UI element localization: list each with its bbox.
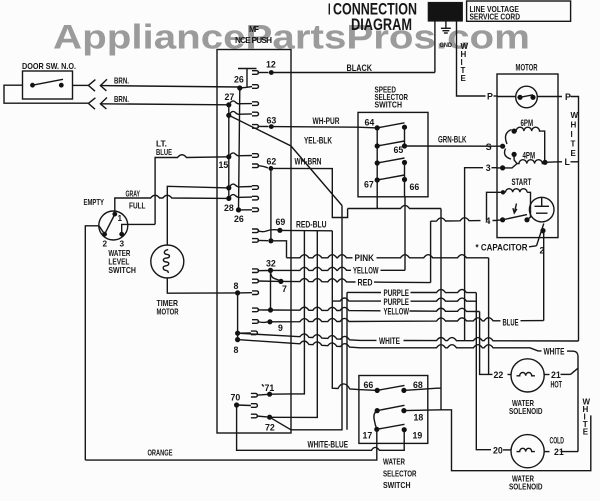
svg-text:BLUE: BLUE xyxy=(503,317,519,327)
wire PINK feed from timer xyxy=(271,241,287,258)
svg-text:RED: RED xyxy=(358,277,373,287)
wire from pin 2 down (orange riser) xyxy=(85,226,104,460)
svg-text:RED-BLU: RED-BLU xyxy=(296,220,327,230)
svg-text:DOOR SW. N.O.: DOOR SW. N.O. xyxy=(22,62,76,71)
pin 17 xyxy=(374,427,379,432)
svg-text:28: 28 xyxy=(224,203,234,213)
svg-text:H: H xyxy=(571,121,577,130)
wire BLACK from connector down to timer pin 12 xyxy=(434,21,436,73)
svg-text:E: E xyxy=(571,149,577,158)
pin 15 xyxy=(226,154,231,159)
wire purple riser down to cold solenoid 20 xyxy=(476,293,491,450)
wire 18 jog: water selector 68 to 18 run xyxy=(404,388,441,390)
svg-text:P: P xyxy=(487,91,493,101)
cold water solenoid body xyxy=(511,435,544,468)
svg-text:26: 26 xyxy=(234,74,244,84)
wire BRN. lower to timer pin 27 xyxy=(100,104,228,105)
svg-text:62: 62 xyxy=(267,157,277,167)
start switch lever xyxy=(503,215,527,220)
pin 62 xyxy=(269,166,274,171)
cam 27 xyxy=(229,101,252,105)
pin 70 xyxy=(234,402,239,407)
svg-text:YELLOW: YELLOW xyxy=(384,307,410,317)
timer motor coil xyxy=(163,250,169,273)
wire WHITE-BLUE from pin 70 to water selector 19 xyxy=(237,405,405,450)
svg-text:19: 19 xyxy=(413,431,423,441)
wire link 64b to 65 xyxy=(404,127,406,146)
svg-text:PINK: PINK xyxy=(355,253,375,263)
svg-text:NCE PUSH: NCE PUSH xyxy=(235,36,272,45)
capacitor body xyxy=(529,197,554,222)
lever 17-19 xyxy=(377,424,405,429)
wire BLUE row xyxy=(270,318,501,322)
svg-text:SWITCH: SWITCH xyxy=(383,481,411,490)
link lower contact to 4PM xyxy=(514,154,517,163)
wire YELLOW row 2 xyxy=(271,307,381,311)
pin 27 xyxy=(226,102,231,107)
wire YEL-BLK diagonal xyxy=(229,115,342,205)
cam 15 xyxy=(229,153,252,157)
svg-text:2: 2 xyxy=(540,245,545,255)
pin 71 xyxy=(267,392,272,397)
pin 66 (speed) xyxy=(402,177,407,182)
wire hot 21 xyxy=(544,374,549,376)
push-to-start bar xyxy=(238,68,257,70)
svg-text:12: 12 xyxy=(266,60,276,70)
contact dot lower xyxy=(511,152,516,157)
start switch second contact xyxy=(524,217,529,222)
pin 28 xyxy=(226,196,231,201)
svg-text:72: 72 xyxy=(265,422,275,432)
pin 32 xyxy=(268,268,273,273)
svg-text:DIAGRAM: DIAGRAM xyxy=(351,16,412,34)
contact row3 right xyxy=(402,160,407,165)
svg-text:W: W xyxy=(571,111,579,120)
svg-text:I: I xyxy=(571,130,573,139)
ground symbol xyxy=(441,27,451,29)
svg-text:MOTOR: MOTOR xyxy=(516,62,538,72)
svg-text:E: E xyxy=(461,74,467,83)
pin 26 (push) xyxy=(237,85,242,90)
svg-text:EMPTY: EMPTY xyxy=(84,198,105,207)
contact dot below 27 xyxy=(226,113,231,118)
svg-text:WH-BRN: WH-BRN xyxy=(295,157,322,167)
junction dot 240 xyxy=(268,238,273,243)
svg-text:BRN.: BRN. xyxy=(114,95,129,104)
wire to motor terminal 4 xyxy=(431,218,481,222)
svg-text:L: L xyxy=(565,157,571,167)
svg-text:YEL-BLK: YEL-BLK xyxy=(304,135,332,145)
wire switch to capacitor xyxy=(527,210,531,220)
wire protector right to P right xyxy=(537,96,562,98)
contact stub 310 xyxy=(252,308,259,312)
svg-text:S: S xyxy=(486,142,492,152)
svg-text:68: 68 xyxy=(413,380,423,390)
wire 22 into hot solenoid xyxy=(508,373,512,375)
mid contact xyxy=(375,408,380,413)
contact stub 63 xyxy=(252,125,259,129)
wire S into box xyxy=(497,145,503,147)
door switch box xyxy=(23,71,73,99)
wire 67 down to staircase xyxy=(376,180,378,209)
ground lead xyxy=(445,21,447,28)
wire RED-BLU descent to water selector 66 xyxy=(332,231,377,391)
start winding left junction xyxy=(501,190,505,194)
wire YELLOW riser up to speed selector 66 xyxy=(404,197,406,270)
svg-text:18: 18 xyxy=(414,412,424,422)
wire PURPLE1 descent xyxy=(346,292,348,429)
svg-text:WHITE: WHITE xyxy=(379,336,400,346)
pin 9 xyxy=(267,319,272,324)
protector contact right xyxy=(530,95,535,100)
contact stub 69 xyxy=(252,229,259,233)
lever 64 xyxy=(377,123,404,128)
wire BLACK horizontal from timer pin 12 xyxy=(291,72,435,74)
hot water solenoid body xyxy=(511,359,544,392)
svg-text:64: 64 xyxy=(365,117,375,127)
wire WH-BRN staircase to 18-wire xyxy=(271,168,348,217)
wire 8 column xyxy=(237,293,239,340)
svg-text:HOT: HOT xyxy=(551,379,563,389)
svg-text:17: 17 xyxy=(363,431,373,441)
svg-text:YELLOW: YELLOW xyxy=(353,266,379,276)
pin 18 xyxy=(401,408,406,413)
thermal protector body xyxy=(516,86,538,108)
wire from door switch right to disconnect xyxy=(73,84,89,86)
svg-text:SOLENOID: SOLENOID xyxy=(509,483,543,492)
pin 2 xyxy=(102,232,107,237)
wire 32 column xyxy=(270,270,272,310)
svg-text:71: 71 xyxy=(265,383,275,393)
pin 8b xyxy=(235,337,240,342)
contact dot (timer motor feed) xyxy=(226,185,231,190)
wire WHITE to hot solenoid xyxy=(238,340,542,351)
pin 3 xyxy=(119,232,124,237)
pin 19 xyxy=(402,427,407,432)
svg-text:WHITE-BLUE: WHITE-BLUE xyxy=(308,439,349,449)
pin 63 xyxy=(269,124,274,129)
timer block body xyxy=(217,50,291,434)
cam 32 to 7 xyxy=(271,272,281,281)
svg-text:63: 63 xyxy=(267,115,277,125)
wire cold 21 xyxy=(544,451,549,453)
contact dot S xyxy=(500,144,505,149)
pin 67 xyxy=(375,177,380,182)
capacitor bottom terminal xyxy=(540,228,545,233)
wire 27 column xyxy=(228,105,230,199)
lever row2 xyxy=(377,141,404,146)
door switch lever xyxy=(33,79,64,85)
start winding xyxy=(506,189,528,193)
svg-text:PURPLE: PURPLE xyxy=(384,297,410,307)
wire RED-BLU row xyxy=(280,229,332,231)
disconnect arrow lower xyxy=(100,98,107,110)
svg-text:GND: GND xyxy=(440,42,453,49)
wire 21 to white riser xyxy=(561,373,571,375)
svg-text:SELECTOR: SELECTOR xyxy=(383,469,417,478)
cam xyxy=(229,184,252,188)
wire terminal 4 into start switch xyxy=(497,219,503,222)
pin 65 xyxy=(402,143,407,148)
svg-text:MOTOR: MOTOR xyxy=(157,308,179,317)
svg-text:8: 8 xyxy=(234,345,239,355)
lever mid-18 xyxy=(377,405,404,410)
svg-text:9: 9 xyxy=(278,323,283,333)
wire ORANGE bottom run to water selector pin 17 xyxy=(85,431,377,460)
pin 12 xyxy=(269,70,274,75)
disconnect fork lower xyxy=(88,98,95,109)
wire timer motor top to timer block xyxy=(167,186,229,245)
door switch contact left xyxy=(30,83,35,88)
svg-text:4PM: 4PM xyxy=(523,150,536,160)
wire GRN-BLK from 65 to motor S xyxy=(405,145,498,147)
service cord connector (black) xyxy=(428,3,462,21)
contact dot 6PM xyxy=(511,129,516,134)
wire PINK row xyxy=(287,255,353,258)
actuator arrow xyxy=(514,204,516,213)
svg-text:22: 22 xyxy=(494,370,504,380)
svg-text:START: START xyxy=(512,177,532,187)
wire PURPLE row 1 xyxy=(347,291,381,293)
svg-text:67: 67 xyxy=(364,180,374,190)
svg-text:ORANGE: ORANGE xyxy=(148,448,173,457)
wire WHITE from connector to motor P xyxy=(457,21,486,96)
line voltage service cord label box xyxy=(467,1,571,21)
centrifugal switch arcs xyxy=(506,130,512,145)
svg-text:26: 26 xyxy=(234,214,244,224)
protector contact left xyxy=(517,95,522,100)
svg-text:1: 1 xyxy=(118,214,123,223)
svg-text:BLUE: BLUE xyxy=(156,148,172,157)
pin 8a xyxy=(235,331,240,336)
svg-text:E: E xyxy=(583,428,589,437)
wire LT. BLUE from pin 3 riser to timer pin 15 xyxy=(155,155,229,225)
wire PINK riser down to hot solenoid 22 xyxy=(488,258,490,375)
wire cold 21 to riser xyxy=(561,451,579,453)
wire terminal 3 to 4PM xyxy=(497,164,517,168)
svg-text:SWITCH: SWITCH xyxy=(375,101,403,110)
link mid to 17 xyxy=(374,411,377,430)
wire WH-PUR to speed selector 64 xyxy=(271,127,377,128)
cam xyxy=(229,111,252,115)
contact 64b xyxy=(402,125,407,130)
contact stub 240 xyxy=(252,239,259,243)
wire GRAY from pin 1 to timer pin 28 xyxy=(115,195,229,214)
6PM winding xyxy=(514,127,542,131)
wire 18 run to lower right xyxy=(404,410,591,471)
wire YEL-BLK descent to timer pin 72 lever xyxy=(270,206,342,430)
contact row2 left xyxy=(375,143,380,148)
pin 64 xyxy=(375,125,380,130)
svg-text:66: 66 xyxy=(410,182,420,192)
svg-text:* CAPACITOR: * CAPACITOR xyxy=(476,243,529,253)
wire white trunk: P right loop down to L and white row xyxy=(571,97,579,342)
wire RED row xyxy=(281,279,356,283)
contact stub 32 xyxy=(252,269,259,273)
wire L corner xyxy=(571,161,579,163)
svg-text:65: 65 xyxy=(394,145,404,155)
pin 72 xyxy=(267,415,272,420)
wire 26 column xyxy=(239,88,240,210)
svg-text:SOLENOID: SOLENOID xyxy=(509,407,543,416)
svg-text:WH-PUR: WH-PUR xyxy=(313,116,340,126)
svg-text:WATER: WATER xyxy=(383,458,405,467)
svg-text:7: 7 xyxy=(282,284,287,294)
L junction dot xyxy=(542,160,547,165)
water selector switch box xyxy=(359,376,428,444)
disconnect fork upper xyxy=(88,80,95,92)
wire yellow2 riser down to hot solenoid 22 xyxy=(480,312,493,375)
4PM winding xyxy=(517,160,545,164)
wire PURPLE row 2 xyxy=(332,298,381,301)
svg-text:32: 32 xyxy=(266,259,276,269)
wire RED riser up to motor terminal 4 wire xyxy=(430,221,432,282)
left column wire xyxy=(376,128,378,180)
lever pin2 to pin1 xyxy=(105,215,115,234)
timer motor body xyxy=(151,245,184,278)
lever 67 xyxy=(377,175,404,180)
svg-text:2: 2 xyxy=(103,240,108,249)
speed selector box xyxy=(358,112,428,196)
svg-text:8: 8 xyxy=(234,281,239,291)
svg-text:GRN-BLK: GRN-BLK xyxy=(438,135,467,145)
wire branch to timer pin 72 xyxy=(270,231,318,418)
contact stub lower of push bar xyxy=(252,85,259,89)
water level switch body xyxy=(99,211,128,240)
svg-text:69: 69 xyxy=(276,217,286,227)
wire loop left of door switch xyxy=(4,85,88,103)
capacitor plates xyxy=(535,205,550,207)
wire YELLOW row xyxy=(271,267,352,270)
cold solenoid coil xyxy=(517,448,535,451)
wire FULL pin 3 riser xyxy=(122,224,155,234)
wire motor terminal 3 descent to white row xyxy=(465,168,483,341)
motor box xyxy=(497,74,558,238)
cam 28 xyxy=(229,195,252,199)
contact stub 62 xyxy=(252,164,259,168)
svg-text:GRAY: GRAY xyxy=(126,189,141,198)
wire 66 down to yellow riser xyxy=(404,180,406,197)
lever row3 xyxy=(377,158,404,163)
wire staircase descent xyxy=(440,209,442,410)
pin 1 xyxy=(112,212,117,217)
svg-text:T: T xyxy=(571,140,576,149)
junction dot 310 xyxy=(268,307,273,312)
svg-text:21: 21 xyxy=(551,370,561,380)
pin 8 xyxy=(235,290,240,295)
svg-text:P: P xyxy=(565,92,571,102)
svg-text:3: 3 xyxy=(486,163,491,173)
wire branch to timer pin 71 xyxy=(270,231,305,394)
wire 62 column xyxy=(270,168,272,240)
pin 66 xyxy=(375,388,380,393)
svg-text:66: 66 xyxy=(364,380,374,390)
start switch fixed contact xyxy=(500,217,505,222)
lever 66-68 xyxy=(377,385,404,390)
wire WHITE row (neutral) xyxy=(238,333,377,340)
wire start loop out of box to terminal 4 xyxy=(487,192,504,220)
contact stub 7 xyxy=(252,279,259,283)
wire 6PM right down to L xyxy=(542,131,545,162)
wire P left into protector xyxy=(497,96,516,98)
hot solenoid coil xyxy=(517,372,535,375)
svg-text:20: 20 xyxy=(493,445,503,455)
svg-text:SWITCH: SWITCH xyxy=(108,266,136,275)
contact row3 left xyxy=(375,160,380,165)
disconnect arrow upper xyxy=(100,79,107,91)
wire timer motor bottom to timer pin 8 xyxy=(167,278,237,293)
svg-text:MF: MF xyxy=(249,25,259,34)
contact stub 12 xyxy=(252,71,259,75)
svg-text:15: 15 xyxy=(219,160,229,170)
wire start winding right to switch/capacitor xyxy=(527,192,530,210)
svg-text:3: 3 xyxy=(120,240,125,249)
svg-text:BRN.: BRN. xyxy=(114,76,129,85)
wire white tie hot to cold 21 xyxy=(577,356,579,452)
svg-text:BLACK: BLACK xyxy=(347,63,373,73)
wire blue riser up to capacitor terminal 2 xyxy=(543,232,545,321)
pin 68 xyxy=(401,388,406,393)
contact stub 9 xyxy=(252,320,259,324)
pin 69 xyxy=(277,228,282,233)
svg-text:COLD: COLD xyxy=(550,436,565,446)
door switch contact right xyxy=(59,83,64,88)
tick left of title xyxy=(328,4,330,15)
pin 26 lower xyxy=(236,207,241,212)
svg-text:4: 4 xyxy=(486,216,491,226)
svg-text:FULL: FULL xyxy=(129,202,146,211)
pin 7 xyxy=(278,279,283,284)
protector lever xyxy=(520,95,533,98)
svg-text:70: 70 xyxy=(231,393,241,403)
svg-text:WHITE: WHITE xyxy=(544,347,565,357)
wire BRN. upper to timer pin 26 xyxy=(100,86,239,87)
wire link row3 to 66 xyxy=(404,163,406,180)
svg-text:SERVICE CORD: SERVICE CORD xyxy=(470,13,521,22)
